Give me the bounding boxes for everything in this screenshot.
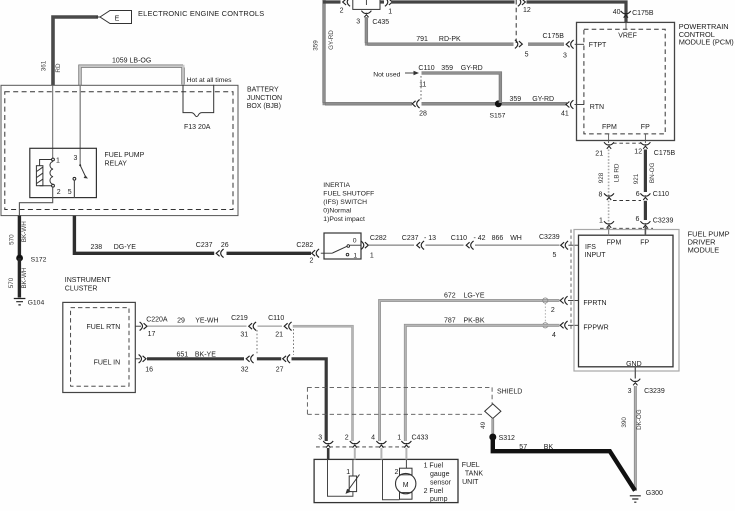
- splice S172: [16, 255, 23, 262]
- svg-text:C175B: C175B: [654, 150, 676, 157]
- svg-text:359: 359: [312, 40, 319, 51]
- FPDM connector plane C3239 (dashed): [570, 230, 572, 332]
- svg-text:40: 40: [613, 9, 621, 16]
- svg-text:2 Fuel: 2 Fuel: [424, 488, 444, 495]
- wire 866 WH from IFS to FPDM: [369, 244, 415, 246]
- svg-text:1)Post impact: 1)Post impact: [323, 216, 365, 223]
- svg-text:(IFS) SWITCH: (IFS) SWITCH: [323, 199, 367, 206]
- svg-text:2: 2: [551, 307, 555, 314]
- battery junction box dashed inner: [5, 92, 233, 210]
- svg-text:C110: C110: [418, 65, 434, 72]
- svg-text:pump: pump: [430, 496, 448, 503]
- svg-text:DK-OG: DK-OG: [636, 409, 643, 430]
- svg-text:6: 6: [636, 216, 640, 223]
- svg-text:C237: C237: [196, 242, 213, 249]
- wire 1059 LB-OG: [79, 65, 185, 85]
- svg-text:SHIELD: SHIELD: [497, 388, 522, 395]
- fuel gauge sensor feed wires: [327, 448, 330, 459]
- svg-text:FPM: FPM: [607, 239, 622, 246]
- svg-text:UNIT: UNIT: [462, 479, 479, 486]
- wire relay pin 2 to ground run: [19, 187, 52, 216]
- svg-text:C110: C110: [451, 235, 467, 242]
- svg-text:BOX (BJB): BOX (BJB): [247, 103, 281, 110]
- svg-text:359: 359: [510, 96, 522, 103]
- svg-text:791: 791: [416, 36, 428, 43]
- connector C110 pins 8 and 6: [604, 193, 614, 200]
- wire 570 BK-WH upper: [18, 216, 21, 258]
- svg-text:0: 0: [353, 237, 357, 244]
- connector C110 pin 21: [284, 322, 291, 331]
- svg-text:C219: C219: [231, 315, 248, 322]
- svg-text:FUEL SHUTOFF: FUEL SHUTOFF: [323, 191, 374, 198]
- svg-text:INPUT: INPUT: [585, 252, 607, 259]
- svg-text:17: 17: [148, 331, 156, 338]
- svg-text:41: 41: [561, 110, 569, 117]
- svg-text:2: 2: [340, 8, 344, 15]
- connector C237 pin 13: [417, 241, 424, 250]
- svg-text:C110: C110: [653, 191, 669, 198]
- wire 29 YE-WH: [148, 325, 247, 327]
- FPDM FPM pin stub: [608, 227, 610, 236]
- wire 238 DG-YE after C237: [227, 252, 312, 255]
- FPDM GND pin stub: [634, 367, 636, 379]
- svg-text:TANK: TANK: [465, 471, 483, 478]
- relay coil: [50, 162, 53, 185]
- svg-text:8: 8: [599, 191, 603, 198]
- svg-text:3: 3: [74, 155, 78, 162]
- svg-text:FUEL: FUEL: [462, 462, 480, 469]
- svg-text:6: 6: [636, 191, 640, 198]
- svg-text:S157: S157: [490, 113, 506, 120]
- svg-text:5: 5: [553, 252, 557, 259]
- shield drain diamond: [485, 404, 501, 419]
- svg-text:FUEL IN: FUEL IN: [94, 360, 121, 367]
- svg-text:FP: FP: [640, 239, 649, 246]
- svg-text:IFS: IFS: [585, 244, 596, 251]
- svg-text:gauge: gauge: [430, 471, 450, 478]
- cluster pin 16: [135, 358, 140, 360]
- svg-text:C3239: C3239: [539, 234, 560, 241]
- svg-text:12: 12: [634, 149, 642, 156]
- svg-text:S312: S312: [499, 435, 515, 442]
- svg-text:ELECTRONIC ENGINE CONTROLS: ELECTRONIC ENGINE CONTROLS: [138, 9, 264, 18]
- svg-text:C3239: C3239: [644, 388, 665, 395]
- svg-text:2: 2: [395, 469, 399, 476]
- svg-text:2: 2: [57, 189, 61, 196]
- wire 921 BN-OG: [644, 150, 647, 193]
- connector C175B pin 40: [621, 11, 631, 18]
- svg-text:1: 1: [599, 217, 603, 224]
- svg-text:RTN: RTN: [590, 104, 604, 111]
- svg-text:238: 238: [91, 244, 103, 251]
- relay switch lever: [80, 165, 86, 177]
- connector C219 pin 32: [246, 355, 253, 364]
- svg-text:390: 390: [621, 417, 628, 428]
- powertrain control module (PCM) box: [577, 22, 675, 140]
- svg-text:BK: BK: [544, 444, 554, 451]
- connector C175B pins 21 and 12: [613, 142, 641, 144]
- wire 791 RD-PK from C435: [365, 17, 513, 45]
- svg-text:2: 2: [345, 435, 349, 442]
- wire 651 BK-YE to fuel tank pin 3: [292, 359, 327, 441]
- wire 359 GY-RD to S157: [422, 102, 568, 105]
- svg-text:INERTIA: INERTIA: [323, 182, 350, 189]
- svg-text:G300: G300: [646, 490, 663, 497]
- svg-text:C237: C237: [402, 235, 419, 242]
- svg-text:21: 21: [275, 332, 283, 339]
- splice S157: [495, 100, 502, 107]
- svg-text:RD: RD: [55, 63, 62, 73]
- svg-text:C175B: C175B: [632, 10, 654, 17]
- svg-text:3: 3: [563, 53, 567, 60]
- svg-text:C110: C110: [268, 315, 284, 322]
- svg-text:11: 11: [419, 82, 426, 89]
- svg-text:BK-YE: BK-YE: [195, 352, 216, 359]
- connector C175B pin 3 into PCM FTPT: [566, 40, 573, 49]
- connector boundary C110 (dashed): [293, 329, 295, 355]
- svg-text:3: 3: [318, 435, 322, 442]
- svg-text:3: 3: [356, 19, 360, 26]
- connector C110 pin 27: [283, 355, 290, 364]
- svg-text:GY-RD: GY-RD: [461, 65, 483, 72]
- svg-text:F13 20A: F13 20A: [184, 124, 211, 131]
- connector C3239 pin 3 (GND): [630, 379, 640, 386]
- svg-text:32: 32: [241, 366, 249, 373]
- inertia fuel shutoff (IFS) switch box: [324, 233, 361, 259]
- connector C110 pin 42: [466, 241, 473, 250]
- connector C175B pin 41 into PCM RTN: [566, 100, 573, 109]
- connector boundary C110 (dotted): [420, 76, 422, 101]
- ground G300: [630, 496, 641, 502]
- svg-text:28: 28: [419, 111, 427, 118]
- svg-text:GND: GND: [626, 361, 642, 368]
- svg-text:S172: S172: [31, 257, 47, 264]
- svg-text:57: 57: [519, 444, 527, 451]
- svg-text:MODULE (PCM): MODULE (PCM): [679, 38, 734, 47]
- svg-text:WH: WH: [510, 235, 522, 242]
- wire 787 PK-BK: [404, 324, 559, 441]
- svg-text:12: 12: [523, 7, 531, 14]
- svg-text:651: 651: [177, 352, 189, 359]
- wire 29 YE-WH to fuel tank pin 2: [293, 326, 353, 441]
- connector C433 pins 3 2 4 1: [316, 446, 410, 448]
- FPDM FP pin stub: [644, 227, 646, 236]
- svg-text:570: 570: [9, 234, 16, 245]
- connector C3239 pin 2 into FPDM FPRTN: [560, 296, 567, 305]
- svg-text:CLUSTER: CLUSTER: [65, 286, 98, 293]
- svg-text:C433: C433: [412, 435, 429, 442]
- svg-text:787: 787: [444, 318, 456, 325]
- splice S312: [489, 434, 496, 441]
- wire 928 LB-RD: [608, 150, 610, 223]
- svg-text:C220A: C220A: [146, 316, 168, 323]
- wire 361 RD to electronic engine controls: [53, 17, 101, 85]
- wire 238 DG-YE from relay pin 5: [74, 216, 214, 254]
- svg-text:FPPWR: FPPWR: [583, 325, 608, 332]
- cluster pin 17 C220A: [135, 325, 141, 327]
- wire 570 BK-WH lower: [18, 258, 21, 298]
- svg-text:FUEL PUMP: FUEL PUMP: [105, 152, 145, 159]
- svg-text:LG-YE: LG-YE: [464, 293, 485, 300]
- connector symbol E (electronic engine controls): [100, 9, 264, 24]
- wire 921 BN-OG lower segment: [644, 201, 647, 220]
- svg-text:PK-BK: PK-BK: [464, 318, 485, 325]
- svg-text:3: 3: [628, 388, 632, 395]
- svg-text:G104: G104: [28, 299, 45, 306]
- svg-text:27: 27: [276, 366, 284, 373]
- wire 651 BK-YE: [147, 357, 244, 360]
- svg-text:29: 29: [177, 317, 185, 324]
- connector C3239 pins 1 and 6: [604, 221, 614, 228]
- wire relay pin 1 feed (361 RD thin): [52, 85, 54, 159]
- connector boundary (dashed) pin 12: [515, 0, 517, 44]
- connector boundary C219 (dashed): [256, 330, 258, 355]
- svg-text:FPM: FPM: [602, 124, 617, 131]
- svg-text:RELAY: RELAY: [105, 160, 128, 167]
- connector C219 pin 31: [249, 322, 256, 331]
- svg-text:C3239: C3239: [653, 217, 674, 224]
- wire 672 LG-YE: [379, 299, 560, 441]
- svg-text:- 42: - 42: [474, 235, 486, 242]
- svg-text:1: 1: [388, 8, 392, 15]
- wire 57 BK: [493, 437, 635, 491]
- IFS switch lever: [333, 246, 348, 253]
- svg-text:RD-PK: RD-PK: [439, 36, 461, 43]
- svg-text:MODULE: MODULE: [688, 245, 720, 254]
- svg-text:FP: FP: [641, 124, 650, 131]
- svg-text:sensor: sensor: [430, 479, 452, 486]
- top wire to PCM VREF: [527, 2, 627, 22]
- svg-text:361: 361: [41, 60, 48, 71]
- svg-text:E: E: [115, 15, 120, 22]
- svg-text:1: 1: [346, 469, 350, 476]
- fuel tank unit box: [314, 459, 458, 502]
- svg-text:26: 26: [221, 242, 229, 249]
- svg-text:21: 21: [595, 150, 603, 157]
- svg-text:1: 1: [397, 435, 401, 442]
- PCM FP pin stub: [644, 134, 646, 143]
- svg-text:BK-WH: BK-WH: [21, 267, 28, 288]
- svg-text:C282: C282: [296, 242, 313, 249]
- svg-text:866: 866: [492, 235, 504, 242]
- svg-text:C435: C435: [372, 19, 389, 26]
- svg-text:1: 1: [353, 252, 357, 259]
- svg-text:928: 928: [598, 172, 605, 183]
- svg-text:LB RD: LB RD: [614, 163, 621, 182]
- svg-text:FTPT: FTPT: [589, 42, 607, 49]
- svg-text:1: 1: [370, 252, 374, 259]
- svg-text:1059 LB-OG: 1059 LB-OG: [112, 58, 151, 65]
- fuel tank pressure sensor (partial, top): [353, 0, 380, 9]
- relay contact pin 5: [73, 177, 76, 180]
- IFS switch output pin 1: [350, 244, 361, 246]
- svg-text:570: 570: [8, 277, 15, 288]
- svg-text:5: 5: [68, 189, 72, 196]
- svg-text:49: 49: [480, 421, 487, 429]
- svg-text:INSTRUMENT: INSTRUMENT: [65, 277, 112, 284]
- svg-text:1 Fuel: 1 Fuel: [424, 463, 444, 470]
- wire 791 RD-PK after pin 5: [528, 43, 564, 46]
- svg-text:FPRTN: FPRTN: [583, 300, 606, 307]
- svg-text:M: M: [403, 482, 409, 489]
- svg-text:C175B: C175B: [543, 33, 565, 40]
- wire 359 GY-RD stub from pin 11 to S157: [422, 72, 502, 103]
- svg-text:JUNCTION: JUNCTION: [247, 95, 282, 102]
- svg-text:YE-WH: YE-WH: [195, 317, 218, 324]
- svg-text:Hot at all times: Hot at all times: [187, 77, 233, 84]
- wire 359 GY-RD vertical left: [323, 0, 412, 105]
- connector C110 pin 28: [412, 100, 419, 109]
- svg-text:1: 1: [56, 157, 60, 164]
- svg-text:BN-OG: BN-OG: [649, 162, 656, 183]
- svg-text:31: 31: [240, 332, 248, 339]
- twisted pair marker: [543, 298, 548, 303]
- PCM FPM pin stub: [608, 134, 610, 143]
- svg-text:0)Normal: 0)Normal: [323, 208, 351, 215]
- connector C435 pin 3: [361, 11, 371, 18]
- wire relay pin 3 feed (1059 thin): [79, 85, 81, 164]
- svg-text:BK-WH: BK-WH: [21, 221, 28, 242]
- svg-text:- 13: - 13: [424, 235, 436, 242]
- svg-text:4: 4: [371, 435, 375, 442]
- svg-text:GY-RD: GY-RD: [532, 96, 554, 103]
- relay node pin 1: [52, 158, 55, 161]
- svg-text:C282: C282: [370, 235, 387, 242]
- svg-text:DG-YE: DG-YE: [114, 244, 137, 251]
- connector C3239 pin 5 into FPDM IFS INPUT: [561, 241, 568, 250]
- fuse F13 20A: [183, 85, 214, 117]
- svg-text:921: 921: [633, 173, 640, 184]
- top wire left segment with connector: [323, 0, 341, 3]
- connector C3239 pin 4 into FPDM FPPWR: [560, 321, 567, 330]
- svg-text:4: 4: [552, 332, 556, 339]
- wire 49 (drain): [492, 419, 494, 434]
- svg-text:359: 359: [441, 65, 453, 72]
- fuel pump motor: [405, 459, 407, 468]
- fuel pump relay box: [30, 148, 97, 197]
- svg-text:FUEL RTN: FUEL RTN: [87, 324, 121, 331]
- svg-text:Not used: Not used: [373, 71, 400, 78]
- svg-text:BATTERY: BATTERY: [247, 86, 279, 93]
- svg-text:16: 16: [145, 366, 153, 373]
- connector pin 5: [515, 40, 522, 49]
- relay resistor (parallel): [36, 160, 53, 186]
- svg-text:2: 2: [310, 257, 314, 264]
- wire 390 DK-OG: [634, 386, 636, 491]
- top wire right of sensor: [380, 0, 384, 3]
- svg-text:5: 5: [525, 51, 529, 58]
- svg-text:VREF: VREF: [618, 32, 637, 39]
- fuel pump driver module box: [574, 230, 679, 372]
- svg-text:GY-RD: GY-RD: [328, 30, 335, 50]
- svg-text:672: 672: [444, 293, 456, 300]
- fuel gauge sensor (variable resistor): [328, 459, 353, 496]
- ground G104: [14, 299, 26, 305]
- battery junction box (BJB) outer: [1, 85, 238, 215]
- shield box (dashed): [307, 387, 492, 414]
- relay node pin 2: [52, 184, 55, 187]
